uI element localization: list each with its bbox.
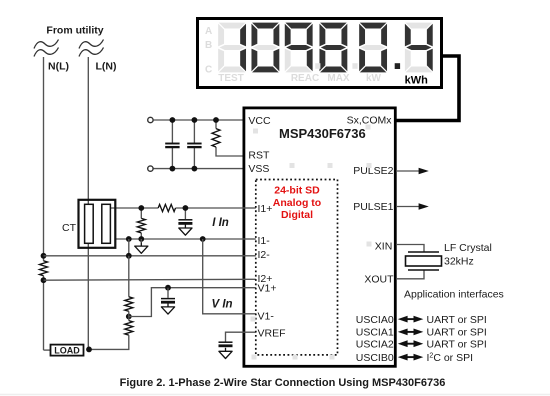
svg-text:XIN: XIN (375, 241, 393, 253)
arrow USCIB0 (404, 356, 417, 358)
svg-text:PULSE1: PULSE1 (353, 201, 393, 213)
node VCC rail C2 (192, 117, 198, 123)
label 24-bit SD Analog to Digital (273, 184, 321, 221)
node N line lower tap (41, 277, 47, 283)
svg-text:L(N): L(N) (96, 61, 117, 73)
node V1+ filter (165, 285, 171, 291)
wire divider bottom to load (89, 335, 129, 349)
wire VSS rail (153, 168, 256, 170)
svg-text:Digital: Digital (281, 209, 313, 221)
svg-text:32kHz: 32kHz (444, 255, 474, 267)
wire CT secondary bottom / I1- (115, 238, 256, 240)
capacitor filter V1+ lead (167, 288, 169, 298)
LCD lit decimal point (395, 63, 400, 69)
ground below I1+ cap (179, 225, 192, 236)
LCD display bezel (198, 19, 442, 88)
node I1- to V1- branch (200, 236, 206, 242)
svg-text:VSS: VSS (248, 163, 269, 175)
svg-text:CT: CT (62, 222, 77, 234)
wire PULSE2 arrow (396, 170, 420, 172)
wire CT secondary top (110, 207, 158, 209)
svg-text:VREF: VREF (258, 327, 286, 339)
load box (51, 345, 84, 356)
svg-text:UART or SPI: UART or SPI (427, 327, 487, 339)
capacitor VREF (219, 341, 233, 343)
LCD digit d1 showing 1 (218, 22, 247, 73)
utility break squiggles L line (79, 40, 104, 57)
svg-text:From utility: From utility (46, 25, 103, 37)
LCD annunciators TEST REAC MAX kW (218, 73, 381, 84)
LCD digit d5 showing 0 (359, 22, 388, 73)
svg-text:Analog to: Analog to (273, 197, 321, 209)
wire L line vertical (87, 57, 89, 349)
wire VCC rail (153, 119, 256, 121)
svg-text:I1+: I1+ (258, 203, 273, 215)
utility break squiggles N line (34, 40, 59, 57)
resistor RST pull-up leads (215, 120, 217, 129)
svg-text:MAX: MAX (327, 73, 350, 84)
capacitor bulk C2 leads (193, 120, 195, 144)
node divider tap (126, 314, 132, 320)
capacitor bulk C2 (187, 143, 201, 145)
wire I2+ net (44, 278, 257, 281)
resistor shunt in N line (40, 261, 48, 276)
svg-text:B: B (205, 40, 212, 51)
ADC dotted block (256, 180, 338, 355)
svg-text:RST: RST (248, 149, 270, 161)
node VCC rail R (213, 117, 219, 123)
svg-text:V1+: V1+ (258, 283, 277, 295)
ground below V1+ cap (161, 303, 174, 314)
LCD phase labels A B C (205, 26, 212, 75)
node load right (86, 347, 92, 353)
resistor divider lower (125, 321, 133, 336)
svg-text:N(L): N(L) (48, 61, 69, 73)
svg-text:TEST: TEST (218, 73, 244, 84)
node VCC rail C1 (170, 117, 176, 123)
svg-text:LF Crystal: LF Crystal (444, 242, 492, 254)
svg-text:A: A (205, 26, 212, 37)
wire PULSE1 arrow (396, 206, 420, 208)
svg-text:LOAD: LOAD (54, 346, 80, 356)
svg-text:VCC: VCC (248, 115, 271, 127)
wire link CT bottom to I2- net (128, 239, 130, 256)
svg-text:C: C (205, 64, 212, 75)
wire divider upper (128, 256, 130, 297)
current transformer CT (79, 200, 116, 248)
arrow USCIA1 (404, 331, 417, 333)
svg-text:USCIA1: USCIA1 (356, 327, 394, 339)
node VSS rail C1 (170, 166, 176, 172)
svg-text:I In: I In (212, 217, 229, 229)
svg-text:REAC: REAC (291, 73, 319, 84)
wire VREF (226, 332, 257, 341)
node N line upper tap (41, 253, 47, 259)
svg-text:USCIB0: USCIB0 (356, 352, 394, 364)
svg-text:MSP430F6736: MSP430F6736 (279, 126, 366, 141)
wire I2- net (44, 255, 257, 257)
resistor RST pull-up (212, 129, 220, 147)
terminal supply + (148, 117, 153, 122)
node burden bottom (138, 236, 144, 242)
svg-text:kWh: kWh (405, 75, 429, 87)
crystal LF 32kHz (408, 251, 439, 253)
terminal supply - (148, 166, 153, 171)
svg-text:V1-: V1- (258, 311, 275, 323)
capacitor filter I1+ lead (184, 208, 186, 219)
capacitor filter V1+ (161, 298, 175, 300)
resistor divider upper (125, 297, 133, 312)
wire N line vertical (43, 57, 45, 261)
LCD ghost decimal points (315, 63, 320, 69)
svg-text:Figure 2. 1-Phase 2-Wire Star: Figure 2. 1-Phase 2-Wire Star Connection… (120, 377, 446, 389)
svg-text:24-bit SD: 24-bit SD (274, 184, 320, 196)
node burden top (138, 205, 144, 211)
svg-text:I2-: I2- (258, 249, 271, 261)
node divider top (126, 253, 132, 259)
capacitor filter I1+ (178, 219, 192, 221)
LCD digit d6 showing 4 (404, 22, 433, 73)
pin stubs re-drawn inside body (243, 208, 257, 332)
svg-text:I1-: I1- (258, 235, 271, 247)
wire V1- net (203, 239, 256, 314)
resistor burden leads (140, 208, 142, 218)
node CT bottom to ref (126, 236, 132, 242)
resistor filter I1+ (158, 204, 175, 211)
capacitor bulk C1 (165, 143, 179, 145)
svg-text:UART or SPI: UART or SPI (427, 314, 487, 326)
ground below burden (140, 239, 142, 243)
capacitor bulk C1 leads (171, 120, 173, 144)
svg-text:USCIA2: USCIA2 (356, 338, 394, 350)
svg-text:kW: kW (366, 73, 382, 84)
ground below VREF cap (219, 348, 232, 359)
wire V1+ tap (129, 288, 256, 317)
svg-text:Application interfaces: Application interfaces (404, 289, 504, 301)
arrow USCIA2 (404, 343, 417, 345)
crystal wiring (396, 245, 424, 253)
arrow USCIA0 (404, 318, 417, 320)
LCD digit d3 showing 9 (284, 22, 313, 73)
LCD digit d4 showing 8 (319, 22, 348, 73)
LCD digit d2 showing 0 (251, 22, 280, 73)
svg-text:XOUT: XOUT (364, 274, 394, 286)
footer rule (0, 394, 550, 396)
node VSS rail C2 (192, 166, 198, 172)
svg-text:I2C or SPI: I2C or SPI (427, 352, 474, 364)
node I1+ filter (183, 205, 189, 211)
MCU MSP430F6736 body (244, 108, 395, 366)
gray pin-number boxes (251, 125, 372, 360)
svg-text:V In: V In (211, 299, 232, 311)
svg-text:USCIA0: USCIA0 (356, 314, 394, 326)
wire LCD to Sx,COMx (thick) (395, 56, 459, 121)
resistor burden (137, 218, 145, 233)
svg-text:UART or SPI: UART or SPI (427, 338, 487, 350)
svg-text:PULSE2: PULSE2 (353, 165, 393, 177)
